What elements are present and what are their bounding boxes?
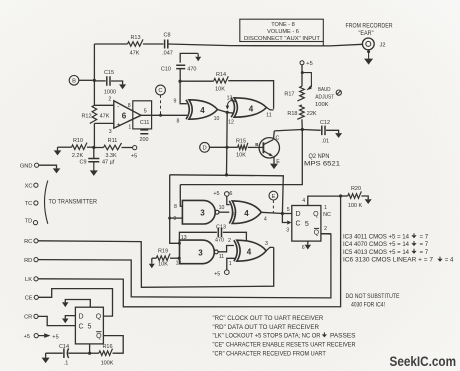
terminal +5 top — [300, 61, 313, 67]
capacitor C9 — [79, 159, 114, 166]
svg-text:C11: C11 — [140, 120, 150, 126]
svg-text:"EAR": "EAR" — [359, 30, 374, 37]
svg-text:5: 5 — [287, 207, 290, 213]
ground at emitter — [270, 157, 278, 169]
svg-text:IC3 4011 CMOS +5 = 14: IC3 4011 CMOS +5 = 14 — [343, 233, 410, 240]
wire CE loop to FF1 Q — [38, 289, 112, 317]
svg-text:MPS 6521: MPS 6521 — [304, 161, 340, 168]
terminal LK — [25, 277, 38, 283]
connector J2 — [362, 38, 385, 50]
svg-text:5: 5 — [233, 213, 236, 219]
svg-text:3: 3 — [200, 209, 205, 218]
svg-text:5: 5 — [144, 108, 147, 114]
node B — [69, 76, 79, 86]
svg-text:5: 5 — [88, 324, 92, 331]
flip-flop U5b (IC5 4013) — [292, 206, 321, 242]
svg-text:TO TRANSMITTER: TO TRANSMITTER — [49, 199, 98, 206]
wire FF2 pin4 top — [302, 194, 342, 205]
svg-text:+5: +5 — [213, 191, 219, 197]
pin 1 label op-amp — [128, 125, 131, 131]
terminal CR — [24, 314, 38, 320]
wire R13 to C8 — [143, 43, 163, 45]
svg-text:RC: RC — [24, 239, 32, 245]
svg-text:C: C — [295, 221, 300, 228]
svg-text:PASSES: PASSES — [330, 333, 356, 340]
wire FF2 D input — [282, 207, 291, 213]
svg-text:+5: +5 — [306, 61, 312, 67]
compensation box with C11 — [133, 101, 152, 129]
logo SeekIC.com — [390, 354, 457, 369]
capacitor C14 — [46, 344, 88, 367]
wire XOR2 output pin11 — [266, 108, 273, 119]
svg-text:C: C — [78, 323, 83, 330]
callout box TONE/VOLUME/DISCONNECT — [240, 19, 323, 46]
svg-text:.1: .1 — [64, 361, 69, 367]
wire node D to junction — [210, 146, 229, 149]
svg-text:+5: +5 — [131, 154, 137, 160]
svg-text:DO NOT SUBSTITUTE: DO NOT SUBSTITUTE — [346, 293, 400, 300]
svg-text:IC6 3130 CMOS LINEAR + = 7: IC6 3130 CMOS LINEAR + = 7 — [343, 257, 434, 264]
terminal GND — [20, 163, 60, 173]
svg-text:8: 8 — [128, 103, 131, 109]
terminal +5 bottom — [24, 333, 59, 340]
label IC5 power — [343, 249, 429, 256]
label FROM RECORDER EAR — [346, 22, 393, 37]
svg-text:C13: C13 — [216, 224, 226, 230]
wire C10 node down to XOR1 pin9 — [174, 81, 187, 104]
svg-text:C12: C12 — [320, 120, 330, 126]
capacitor C15 — [94, 70, 126, 96]
svg-text:R17: R17 — [284, 92, 294, 98]
svg-text:"RD" DATA OUT TO UART RECE: "RD" DATA OUT TO UART RECEIVER — [213, 324, 320, 331]
hook XOR2 pin13 — [226, 96, 237, 110]
op-amp U1 (IC6 3130) — [114, 101, 141, 129]
xor gate U4b (XOR2) — [231, 98, 266, 117]
svg-text:BAUD: BAUD — [318, 87, 331, 93]
svg-text:4: 4 — [244, 209, 249, 218]
wire +5 to R17 — [301, 65, 304, 74]
svg-text:FROM RECORDER: FROM RECORDER — [346, 22, 393, 29]
svg-text:CE: CE — [25, 296, 33, 302]
wire XOR1 output — [214, 110, 229, 123]
wire C10 to junction — [178, 69, 181, 83]
svg-text:TONE - 8: TONE - 8 — [271, 22, 295, 28]
svg-text:470: 470 — [187, 67, 196, 73]
svg-text:C15: C15 — [104, 70, 114, 76]
svg-text:1: 1 — [128, 125, 131, 131]
svg-text:200: 200 — [140, 137, 149, 143]
svg-text:2: 2 — [108, 97, 111, 103]
wire junction to R15 — [227, 146, 238, 148]
svg-text:IC5 4013 CMOS +5 = 14: IC5 4013 CMOS +5 = 14 — [343, 249, 410, 256]
svg-text:SeekIC.com: SeekIC.com — [390, 354, 457, 369]
svg-text:R15: R15 — [236, 139, 246, 145]
terminal RD — [24, 258, 38, 264]
svg-text:R10: R10 — [73, 138, 83, 144]
svg-text:10K: 10K — [215, 87, 225, 93]
wire CR to FF1 C — [38, 316, 75, 325]
svg-text:C: C — [276, 135, 280, 141]
ground arrow at R19 — [149, 258, 155, 268]
wire collector node line — [274, 130, 302, 131]
svg-text:1: 1 — [324, 205, 327, 211]
pin 8 label op-amp — [128, 103, 131, 109]
ground at R20 — [365, 199, 372, 204]
svg-text:2.2K: 2.2K — [72, 153, 84, 159]
svg-text:C: C — [158, 88, 162, 94]
svg-text:TD: TD — [25, 218, 33, 224]
ground stub left of R10 — [54, 147, 62, 155]
svg-text:47 µf: 47 µf — [102, 159, 115, 165]
svg-text:R18: R18 — [287, 111, 297, 117]
svg-text:XC: XC — [25, 183, 33, 189]
wire XOR4a output to FF2 — [261, 212, 284, 222]
wire R15 to base — [248, 142, 264, 147]
bus XOR1-out horizontal — [170, 175, 284, 214]
svg-text:4: 4 — [247, 247, 252, 256]
svg-text:D: D — [203, 146, 207, 152]
svg-text:3.3K: 3.3K — [105, 153, 117, 159]
svg-text:IC4 4070 CMOS +5 = 14: IC4 4070 CMOS +5 = 14 — [343, 241, 410, 248]
bus left vertical to NAND inputs — [168, 175, 181, 245]
svg-text:Q: Q — [313, 211, 319, 218]
svg-text:+5: +5 — [52, 334, 58, 340]
svg-text:9: 9 — [173, 216, 176, 222]
svg-text:R14: R14 — [216, 72, 226, 78]
xor gate U4c (XOR4a) — [229, 201, 261, 224]
svg-text:ADJUST: ADJUST — [315, 94, 334, 100]
wire FF1 bottom pin — [88, 344, 91, 355]
terminal +5 right of R11 — [131, 146, 137, 160]
svg-text:C10: C10 — [161, 67, 171, 73]
dashed test line E — [272, 200, 274, 212]
wire R14 to XOR2 output — [228, 81, 273, 109]
svg-text:22K: 22K — [307, 111, 317, 117]
resistor R13 — [128, 35, 143, 57]
svg-text:6: 6 — [122, 111, 127, 120]
svg-text:Q: Q — [96, 333, 102, 340]
ground arrow at FF1 S — [62, 300, 90, 308]
svg-text:11: 11 — [219, 254, 224, 260]
svg-text:B: B — [255, 142, 258, 147]
ground at C14 — [42, 353, 50, 363]
resistor R10 — [58, 138, 93, 159]
terminal RC — [24, 239, 38, 245]
svg-text:C8: C8 — [163, 33, 170, 39]
terminal TD — [25, 218, 38, 224]
svg-text:6: 6 — [230, 191, 233, 197]
legend LK — [213, 332, 356, 339]
wire FF2 C input — [282, 214, 291, 234]
svg-text:9: 9 — [174, 99, 177, 105]
svg-text:4: 4 — [302, 198, 305, 204]
svg-text:10K: 10K — [236, 153, 246, 159]
capacitor C11 plates — [140, 130, 149, 143]
node E — [269, 191, 278, 200]
svg-text:R13: R13 — [130, 35, 140, 41]
svg-text:100K: 100K — [315, 102, 329, 108]
wire LK to R20 node — [38, 196, 341, 307]
terminal +5 pin1 — [214, 258, 235, 277]
svg-text:4: 4 — [264, 216, 267, 222]
wire XOR1 out down to bus — [225, 112, 228, 176]
svg-text:4030 FOR IC4!: 4030 FOR IC4! — [351, 301, 385, 308]
node C — [156, 85, 166, 95]
svg-text:3: 3 — [286, 228, 289, 234]
svg-text:+5: +5 — [24, 334, 30, 340]
svg-text:470: 470 — [215, 238, 224, 244]
legend RD — [213, 324, 320, 331]
svg-text:12: 12 — [228, 120, 234, 126]
wire RC to XOR output bus — [38, 241, 274, 287]
svg-text:R20: R20 — [351, 186, 361, 192]
wire FF2 pin6 ground — [302, 241, 311, 251]
svg-text:10: 10 — [219, 205, 225, 211]
svg-text:12: 12 — [176, 261, 182, 267]
ground arrow at FF1 D — [62, 316, 75, 324]
svg-text:C14: C14 — [59, 344, 69, 350]
nand gate U3a — [182, 200, 219, 224]
legend CE — [213, 342, 357, 349]
svg-text:Q: Q — [96, 313, 102, 320]
node D — [200, 142, 210, 152]
svg-text:2: 2 — [324, 226, 327, 232]
svg-text:Q2 NPN: Q2 NPN — [309, 153, 330, 160]
resistor R15 — [236, 139, 248, 159]
svg-text:C9: C9 — [79, 159, 86, 165]
wire XOR4b output (RC) — [265, 241, 274, 251]
dashed test line C — [159, 95, 162, 117]
svg-text:47K: 47K — [130, 51, 140, 57]
pin 8 label XOR1 — [177, 118, 180, 124]
wire main left vertical — [93, 44, 95, 105]
svg-text:.047: .047 — [162, 51, 173, 57]
wire NAND3a pin8 stub — [174, 185, 182, 210]
svg-text:R11: R11 — [108, 138, 118, 144]
svg-text:Q: Q — [314, 230, 320, 237]
svg-text:1000: 1000 — [104, 90, 116, 96]
svg-text:D: D — [78, 313, 83, 320]
resistor R19 — [152, 248, 181, 267]
label do not substitute — [346, 293, 400, 308]
svg-text:6: 6 — [302, 245, 305, 251]
capacitor C13 — [179, 224, 246, 243]
xor gate U4d (XOR4b) — [234, 240, 266, 261]
resistor R14 — [214, 72, 229, 93]
transistor Q2 — [259, 135, 280, 164]
wire XOR1 out to XOR2 pin12 — [227, 112, 234, 125]
capacitor C12 — [302, 120, 338, 144]
wire vertical R12 to bias row — [92, 123, 95, 149]
terminal TC — [25, 201, 38, 207]
svg-text:3: 3 — [109, 129, 112, 135]
resistor R20 — [341, 186, 369, 209]
svg-text:8: 8 — [177, 118, 180, 124]
resistor R12 — [81, 105, 109, 123]
wire C8 to J2 — [168, 44, 362, 46]
svg-text:"RC" CLOCK OUT TO UART RECEIV: "RC" CLOCK OUT TO UART RECEIVER — [213, 315, 324, 322]
wire RD to FF2 Q-bar — [38, 234, 331, 298]
svg-text:NC: NC — [323, 212, 331, 218]
svg-text:"CR" CHARACTER RECEIVED FROM: "CR" CHARACTER RECEIVED FROM UART — [213, 351, 326, 358]
resistor R16 — [90, 336, 124, 367]
svg-text:"CE" CHARACTER ENABLE RESETS: "CE" CHARACTER ENABLE RESETS UART RECEIV… — [213, 342, 357, 349]
svg-text:J2: J2 — [380, 43, 386, 49]
terminal +5 pin6 — [213, 191, 232, 204]
svg-text:GND: GND — [20, 163, 33, 169]
xor gate U4a (XOR1) — [186, 100, 218, 119]
svg-text:LK: LK — [25, 277, 32, 283]
flip-flop U5a (IC5 4013) — [75, 307, 103, 344]
svg-text:CR: CR — [24, 315, 32, 321]
legend CR — [213, 351, 326, 358]
svg-text:100 K: 100 K — [348, 203, 363, 209]
wire FF2 Q-bar out — [321, 226, 331, 234]
svg-text:+: + — [116, 121, 120, 128]
svg-text:+5: +5 — [214, 272, 220, 278]
wire junction to R14 — [181, 80, 213, 82]
svg-text:10: 10 — [214, 116, 220, 122]
svg-text:3: 3 — [198, 248, 203, 257]
svg-text:= 7: = 7 — [420, 241, 429, 248]
svg-text:= 7: = 7 — [420, 233, 429, 240]
wire op-amp pin3 input — [94, 123, 113, 135]
svg-text:D: D — [295, 211, 300, 218]
wire audio line from divider corner to R13 — [94, 43, 127, 45]
ground at J2 — [364, 50, 373, 65]
svg-text:"LK" LOCKOUT +5 STOPS DATA: "LK" LOCKOUT +5 STOPS DATA; NC OR — [213, 333, 321, 340]
capacitor C10 — [161, 65, 197, 73]
label pin1 NC — [323, 205, 331, 218]
wire NAND3a pin9 stub — [170, 216, 183, 222]
label IC4 power — [343, 241, 429, 248]
wire R18 to collector node — [301, 119, 304, 131]
screwdriver adjust symbol — [336, 90, 341, 95]
label Q2 NPN MPS 6021 — [304, 153, 340, 167]
wire NAND3b output pin11 — [218, 238, 234, 260]
svg-text:DISCONNECT "AUX" INPUT: DISCONNECT "AUX" INPUT — [244, 36, 321, 42]
wire to C9 — [93, 148, 95, 159]
svg-text:2: 2 — [228, 238, 231, 244]
wire op-amp pin2 input — [94, 97, 113, 106]
svg-text:10K: 10K — [158, 262, 168, 268]
svg-text:E: E — [271, 194, 275, 200]
svg-text:100K: 100K — [101, 361, 114, 367]
ground below C9 — [90, 162, 98, 176]
wire node B to vertical — [79, 79, 96, 82]
legend RC — [213, 315, 324, 322]
svg-text:4: 4 — [249, 104, 254, 113]
svg-text:13: 13 — [181, 235, 187, 241]
pot wiper arrow — [302, 73, 311, 91]
brace to transmitter — [45, 181, 98, 224]
svg-text:RD: RD — [24, 258, 32, 264]
svg-text:3: 3 — [265, 241, 268, 247]
svg-text:TC: TC — [25, 201, 33, 207]
wire NAND3a output — [219, 205, 230, 212]
capacitor C8 — [162, 33, 173, 57]
svg-text:= 4: = 4 — [445, 257, 454, 264]
wire op-amp output to XOR1 — [141, 114, 187, 116]
terminal XC — [25, 183, 38, 189]
svg-text:R19: R19 — [158, 248, 168, 254]
svg-text:VOLUME - 6: VOLUME - 6 — [267, 29, 299, 35]
capacitor C10 top ground — [180, 53, 201, 62]
wire collector node down to NAND row — [180, 130, 302, 185]
svg-text:11: 11 — [266, 113, 271, 119]
wire collector up — [272, 131, 275, 140]
terminal CE — [25, 295, 39, 301]
svg-text:-: - — [117, 103, 119, 110]
label BAUD ADJUST 100K — [315, 87, 335, 108]
label IC6 power — [343, 257, 454, 264]
ground at C12 — [335, 133, 342, 138]
svg-text:47K: 47K — [100, 113, 110, 119]
label IC3 power — [343, 233, 429, 240]
svg-text:1: 1 — [229, 261, 232, 267]
potentiometer R17 — [284, 73, 304, 101]
svg-text:= 7: = 7 — [420, 249, 429, 256]
svg-text:B: B — [72, 79, 76, 85]
svg-text:.01: .01 — [321, 139, 329, 145]
resistor R18 — [287, 105, 317, 119]
nand gate U3b — [176, 235, 218, 266]
svg-text:5: 5 — [305, 221, 309, 228]
svg-text:R16: R16 — [102, 344, 112, 350]
resistor R11 — [95, 138, 133, 159]
svg-text:R12: R12 — [81, 113, 91, 119]
svg-text:4: 4 — [200, 106, 205, 115]
svg-text:8: 8 — [174, 204, 177, 210]
